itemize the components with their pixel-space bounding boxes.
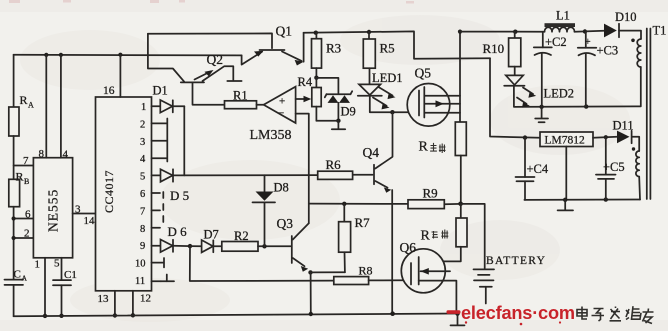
wire: pin7 stub (152, 209, 161, 211)
svg-text:LM7812: LM7812 (545, 135, 586, 147)
node: D8 bottom junction (262, 244, 266, 248)
wire: NE555 pin3 to CC4017 pin14 (73, 204, 96, 228)
node: C5 bottom (604, 197, 608, 201)
svg-text:4: 4 (140, 154, 146, 165)
wire: top VCC bus (left) (14, 54, 242, 57)
wire: rail RB down to CA (13, 207, 15, 280)
svg-text:T1: T1 (653, 24, 667, 38)
svg-text:+C3: +C3 (597, 44, 619, 58)
svg-text:3: 3 (75, 204, 81, 216)
wire: zero-volt rail (524, 199, 640, 201)
svg-text:+: + (585, 37, 591, 48)
svg-text:8: 8 (140, 224, 145, 235)
svg-text:L1: L1 (556, 9, 570, 23)
transformer T1 core (647, 29, 651, 200)
wire: top bus right of riser (460, 31, 545, 33)
svg-text:13: 13 (98, 293, 110, 305)
svg-text:R9: R9 (423, 186, 438, 201)
node: pin8 junction (44, 53, 48, 57)
svg-text:2: 2 (140, 119, 145, 130)
svg-text:LM358: LM358 (250, 128, 292, 143)
svg-text:CC4017: CC4017 (102, 170, 116, 213)
wire: D11 to T1 winding 2 (632, 137, 639, 151)
ground below D9 (332, 121, 345, 130)
diode D5 (152, 169, 190, 203)
svg-text:Q3: Q3 (277, 216, 294, 231)
svg-text:16: 16 (103, 85, 115, 97)
svg-text:D8: D8 (274, 181, 289, 195)
wire: NE555 pin7 stub (14, 155, 34, 167)
resistor R8 (334, 264, 411, 285)
svg-text:3: 3 (140, 137, 145, 148)
wire: NE555 pin8 lead up (39, 55, 47, 160)
wire: R2 to Q3 base (258, 245, 291, 247)
resistor RB (9, 170, 30, 207)
wire: op-amp + input to R4 wiper arrow (296, 96, 312, 103)
svg-text:R10: R10 (483, 41, 505, 56)
wire: pin6 stub (152, 192, 161, 194)
wire: NE555 pin4 lead up (61, 55, 69, 161)
wire: CC4017 pin16 lead up (103, 55, 120, 97)
svg-text:D 5: D 5 (170, 188, 189, 203)
wire: R9 row (309, 203, 408, 205)
IC U2 CC4017 (96, 97, 152, 291)
svg-text:Q2: Q2 (207, 52, 224, 67)
wire: CA to bottom bus (13, 285, 15, 316)
svg-text:R8: R8 (359, 264, 373, 278)
diode D6 (152, 224, 191, 252)
node: rail ground junction (563, 198, 567, 202)
svg-text:A: A (28, 101, 34, 110)
transistor Q1 (148, 24, 304, 66)
node: gate/Q4 junction (390, 110, 394, 114)
svg-text:1: 1 (141, 102, 146, 113)
LED LED1 (358, 71, 403, 109)
resistor R9 (408, 186, 461, 209)
inductor L1 (545, 9, 576, 32)
resistor R-charge (419, 122, 467, 156)
node: R10 top (513, 30, 517, 34)
capacitor C2 (534, 32, 567, 107)
diode D11 (613, 119, 634, 144)
capacitor C5 (596, 137, 625, 199)
wire: winding1 return rail (514, 67, 641, 107)
svg-text:9: 9 (140, 241, 145, 252)
svg-text:R1: R1 (233, 89, 248, 103)
watermark elecfans.com (447, 303, 575, 325)
wire: Q2 emitter to R1 (193, 82, 225, 104)
node: C5 top (604, 135, 608, 139)
MOSFET Q5 (407, 66, 460, 127)
wire: R4 bottom to D9 bottom (316, 120, 338, 122)
wire: op-amp - input feedback down (296, 114, 309, 224)
label: charge subscript (430, 143, 445, 153)
svg-text:Q1: Q1 (276, 24, 293, 39)
wire: D10 to T1 primary top (619, 31, 641, 39)
svg-text:7: 7 (23, 155, 29, 167)
svg-text:BATTERY: BATTERY (486, 255, 546, 267)
svg-text:+C4: +C4 (527, 162, 549, 176)
svg-text:11: 11 (135, 276, 145, 287)
wire: NE555 pin2 stub (12, 228, 34, 241)
zener D9 (325, 91, 356, 121)
transformer T1 winding 1 (631, 24, 666, 68)
LED LED2 (504, 75, 574, 107)
diode D10 (604, 10, 637, 37)
wire: abbreviated diode bar line pins2-4 (166, 119, 168, 162)
svg-text:8: 8 (39, 148, 45, 160)
wire: Q3 emitter to R7 bottom (311, 271, 345, 273)
node: C2 bottom (539, 105, 543, 109)
svg-text:D11: D11 (613, 119, 634, 133)
wire: left rail upper (13, 55, 15, 107)
svg-text:+C2: +C2 (545, 35, 567, 49)
svg-text:D 6: D 6 (168, 224, 188, 239)
wire: regulator middle pin (565, 147, 567, 200)
wire: diode cathode rail (183, 106, 185, 175)
resistor R-discharge (419, 204, 467, 262)
svg-text:R3: R3 (326, 41, 341, 56)
node: bus junction ground (455, 311, 460, 316)
resistor RA (9, 93, 34, 136)
battery BATTERY (474, 255, 547, 304)
svg-text:R5: R5 (380, 41, 395, 56)
svg-text:B: B (24, 177, 29, 186)
svg-text:Q5: Q5 (415, 66, 432, 81)
svg-text:Q4: Q4 (363, 145, 380, 160)
svg-text:R: R (419, 140, 429, 155)
svg-text:elecfans·com: elecfans·com (461, 303, 575, 323)
resistor R2 (222, 229, 258, 251)
node: D9 ground junction (336, 119, 340, 123)
node: Q3 emitter junction (308, 270, 312, 274)
transistor Q3 (277, 216, 309, 272)
svg-text:+C5: +C5 (603, 160, 625, 174)
node: R7 top (342, 202, 346, 206)
svg-text:R2: R2 (234, 229, 249, 243)
node: bus junction Q4 (390, 311, 395, 316)
node: R9 right junction (458, 202, 463, 207)
resistor R5 (363, 32, 394, 84)
wire: pin10 stub abbreviated (152, 258, 165, 267)
transistor Q2 (148, 34, 242, 83)
svg-text:12: 12 (140, 293, 151, 305)
svg-text:R7: R7 (355, 215, 371, 230)
svg-text:LED1: LED1 (372, 71, 403, 85)
wire: rail RA to RB (13, 136, 15, 179)
svg-text:+: + (279, 96, 285, 108)
svg-text:R: R (20, 93, 28, 107)
wire: R3 bottom to D9 top (316, 78, 338, 93)
wire: D6 junction down to R8 row (190, 246, 334, 281)
svg-text:R4: R4 (298, 75, 313, 89)
svg-text:R6: R6 (326, 157, 342, 172)
node: D6-D7 junction (188, 244, 192, 248)
svg-text:5: 5 (140, 172, 145, 183)
ground stub below C2 node (535, 107, 548, 123)
capacitor C1 (53, 269, 77, 285)
wire: bottom ground bus (14, 314, 458, 317)
wire: CC4017 pin13 lead down (98, 291, 118, 318)
svg-text:7: 7 (140, 206, 145, 217)
ground at bus right end (451, 314, 465, 326)
svg-text:14: 14 (84, 215, 96, 227)
resistor R7 (339, 204, 371, 272)
wire: regulator output to D11 (593, 137, 617, 138)
resistor R10 (483, 32, 521, 76)
wire: NE555 pin6 stub (12, 209, 34, 221)
wire: pin2 stub abbreviated diode (152, 122, 167, 124)
diode D7 (190, 228, 222, 253)
svg-text:R: R (16, 170, 24, 184)
wire: dash continuation marks below D5 (162, 192, 164, 222)
wire: CC4017 pin12 lead down (131, 291, 151, 318)
svg-text:10: 10 (135, 259, 146, 270)
resistor R3 (312, 33, 342, 78)
MOSFET Q6 (400, 240, 457, 314)
wire: LED1 to Q5 gate (370, 96, 418, 113)
svg-text:1: 1 (35, 259, 41, 271)
wire: D5 row to R6 (173, 174, 318, 176)
svg-text:D9: D9 (341, 105, 356, 119)
wire: pin11 stub abbreviated (152, 275, 175, 282)
node: R5 top (367, 30, 371, 34)
wire: pin3 stub abbreviated diode (152, 140, 167, 142)
svg-text:−: − (278, 108, 284, 120)
svg-text:6: 6 (25, 209, 31, 221)
IC U4 LM7812 (540, 132, 593, 147)
svg-text:6: 6 (140, 189, 145, 200)
capacitor C4 (516, 138, 549, 200)
wire: pin8 stub (152, 227, 161, 229)
node: C3 bottom (584, 104, 588, 108)
diode D8 (253, 175, 289, 246)
svg-text:4: 4 (63, 149, 69, 161)
svg-text:D1: D1 (153, 84, 168, 98)
node: pin16 junction (118, 53, 122, 57)
wire: R9 node to battery (461, 204, 485, 268)
op-amp U3 LM358 (250, 87, 296, 143)
wire: rectifier to regulator input (490, 58, 540, 138)
wire: drain riser x460 (458, 30, 462, 123)
node: C3 top (583, 29, 587, 33)
svg-text:Q6: Q6 (400, 240, 417, 255)
wire: C1 to bottom bus (59, 285, 63, 318)
wire: R-charge to R9 node (460, 156, 462, 204)
resistor R6 (318, 157, 353, 179)
node: R3 bottom junction (314, 76, 318, 80)
wire: pin4 stub abbreviated diode (152, 157, 167, 159)
svg-text:D7: D7 (204, 228, 219, 242)
transformer T1 winding 2 (632, 147, 640, 199)
diode D1 (152, 84, 185, 113)
ground below rail (558, 200, 573, 211)
node: C4 top (523, 135, 527, 139)
node: pin4 junction (59, 53, 63, 57)
svg-text:2: 2 (24, 228, 30, 240)
svg-text:D10: D10 (615, 10, 637, 24)
scan smudges top edge (9, 0, 414, 4)
wire: top bus middle (304, 31, 490, 58)
wire: L1 to D10 (575, 30, 605, 33)
wire: NE555 pin5 lead to C1 (54, 258, 62, 281)
capacitor CA (5, 269, 28, 285)
svg-text:NE555: NE555 (46, 189, 61, 232)
node: R3 top (314, 31, 318, 35)
capacitor C3 (578, 32, 618, 107)
svg-text:C: C (14, 269, 21, 281)
wire: Q3 emitter down to bus (309, 272, 313, 316)
wire: vertical to Q1 collector (303, 33, 305, 62)
svg-text:5: 5 (54, 258, 60, 270)
svg-text:C1: C1 (64, 269, 77, 281)
resistor R1 (225, 89, 257, 109)
potentiometer R4 (298, 75, 322, 121)
svg-text:A: A (22, 274, 28, 283)
svg-text:LED2: LED2 (544, 87, 575, 101)
svg-text:R: R (421, 229, 431, 244)
watermark chinese text dianzifashaoyou (577, 306, 654, 323)
transistor Q4 (353, 112, 393, 314)
wire: NE555 pin1 lead down (35, 258, 48, 318)
IC U1 NE555 (33, 158, 72, 258)
label: discharge subscript (432, 230, 449, 239)
